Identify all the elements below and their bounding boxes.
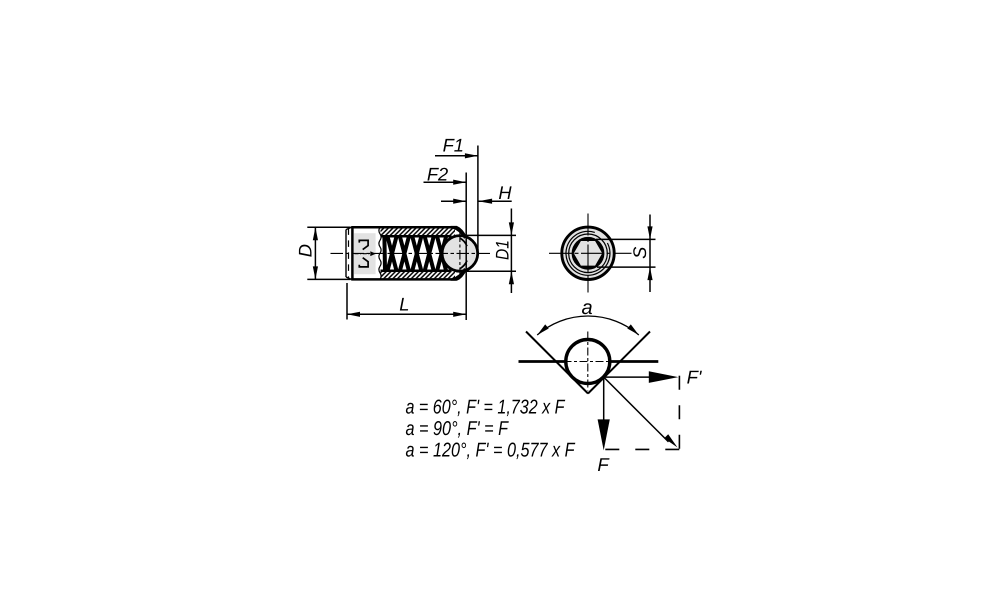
svg-text:L: L <box>399 293 409 314</box>
svg-text:a: a <box>581 297 592 319</box>
svg-text:a = 120°, F' = 0,577 x F: a = 120°, F' = 0,577 x F <box>406 440 576 462</box>
svg-text:S: S <box>629 247 650 259</box>
svg-text:a = 90°, F' = F: a = 90°, F' = F <box>406 418 510 440</box>
svg-text:D: D <box>295 244 316 257</box>
svg-text:F1: F1 <box>443 135 464 156</box>
svg-text:a = 60°, F' = 1,732 x F: a = 60°, F' = 1,732 x F <box>406 396 566 418</box>
svg-text:F2: F2 <box>427 164 448 185</box>
svg-text:F: F <box>597 454 610 475</box>
svg-text:H: H <box>498 182 512 203</box>
svg-text:D1: D1 <box>491 240 512 260</box>
svg-text:F': F' <box>687 367 703 388</box>
